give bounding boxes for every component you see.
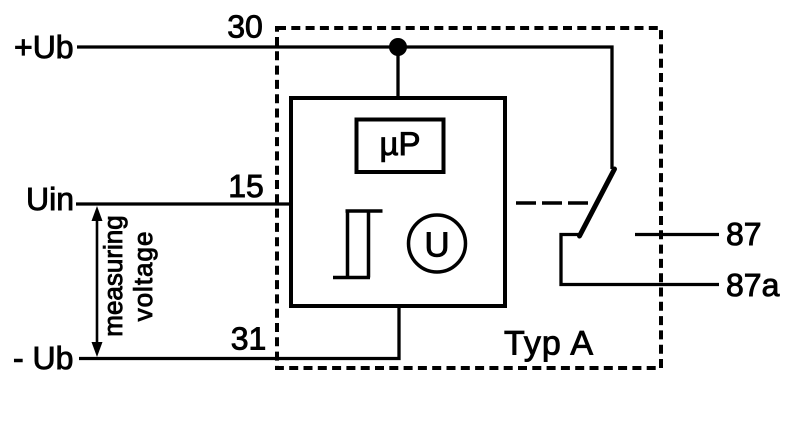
label measuring voltage (rotated): [98, 215, 128, 336]
svg-text:measuring: measuring: [98, 215, 128, 336]
svg-text:µP: µP: [379, 125, 420, 162]
svg-text:30: 30: [227, 9, 263, 45]
outer dashed relay housing box: [277, 28, 661, 368]
wire +Ub to terminal 30 and down to switch pivot: [77, 47, 612, 169]
switch blade (relay contact arm): [580, 169, 615, 236]
wire terminal 31 from module bottom to -Ub: [79, 306, 399, 359]
svg-text:31: 31: [231, 321, 267, 357]
svg-text:Uin: Uin: [26, 181, 74, 217]
svg-text:15: 15: [228, 168, 264, 204]
dashed actuator link from module to switch blade: [516, 201, 592, 205]
svg-text:87: 87: [726, 216, 762, 252]
inner control module box: [291, 98, 505, 306]
wire Uin to terminal 15: [76, 202, 291, 205]
svg-text:voltage: voltage: [128, 231, 158, 322]
svg-text:87a: 87a: [726, 267, 780, 303]
node junction dot on terminal 30 wire: [389, 38, 407, 56]
svg-text:U: U: [424, 226, 449, 265]
svg-text:- Ub: - Ub: [13, 340, 73, 376]
wire junction dot down to control module: [396, 47, 399, 98]
hysteresis comparator symbol: [333, 210, 383, 278]
wire terminal 87: [635, 233, 719, 236]
svg-text:+Ub: +Ub: [14, 29, 74, 65]
microprocessor box U1: [357, 120, 444, 173]
voltage sensor circle U: [409, 215, 466, 272]
switch pivot bracket to terminal 87a: [561, 235, 719, 285]
svg-text:Typ A: Typ A: [504, 325, 594, 363]
measuring voltage double arrow: [96, 213, 99, 352]
